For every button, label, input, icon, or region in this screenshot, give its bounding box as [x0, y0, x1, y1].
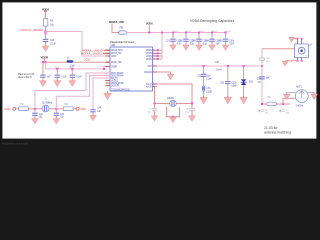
- ground antenna right: [311, 93, 318, 100]
- capacitor C22: [183, 39, 188, 42]
- wire R32 to XOSC_OUT: [73, 108, 76, 110]
- ferrite bead FB1 body: [119, 31, 127, 34]
- black frame top: [0, 0, 320, 2]
- junction X2 left: [154, 103, 156, 105]
- svg-text:1: 1: [106, 84, 107, 86]
- ground below C6: [54, 79, 61, 86]
- svg-text:2: 2: [180, 101, 181, 103]
- junction C22 on bus: [185, 32, 187, 34]
- ground below C23: [196, 44, 203, 51]
- off-page connector circle XOSC_OUT: [76, 107, 79, 110]
- J1 bottom pin stub 1: [297, 58, 299, 61]
- wire J1 bottom to ground: [285, 60, 298, 62]
- pin stub left DIO17_TDI: [106, 52, 111, 54]
- svg-text:1: 1: [106, 65, 107, 67]
- wire InA_P to X2 right: [157, 84, 192, 104]
- wire VDDS pin y=53.3: [157, 52, 162, 54]
- ground below C44: [90, 114, 97, 121]
- svg-text:4: 4: [153, 54, 154, 56]
- wire X2 horizontal: [155, 103, 193, 105]
- wire C41 to ground: [34, 116, 36, 119]
- svg-text:DIO17_TDI: DIO17_TDI: [111, 53, 122, 55]
- ground below C10: [42, 45, 49, 52]
- J1 top pin stub 2: [301, 39, 303, 44]
- capacitor C42: [54, 113, 59, 116]
- ground arrow J1 bottom: [282, 61, 288, 66]
- wire C21 to ground: [172, 42, 174, 45]
- wire leg A to C31: [203, 66, 205, 74]
- wire C6 to ground: [56, 78, 58, 81]
- svg-text:4: 4: [153, 49, 154, 51]
- svg-text:1: 1: [106, 61, 107, 63]
- page background: [0, 0, 320, 146]
- wire to C6: [56, 69, 58, 75]
- junction antenna feed right: [282, 103, 284, 105]
- svg-text:U2B: U2B: [111, 43, 116, 47]
- svg-text:RFGND: RFGND: [144, 72, 152, 74]
- wire VDDR down: [43, 59, 45, 63]
- wire DIO5_RF24N to X1 right: [56, 76, 110, 109]
- junction X2 right: [191, 103, 193, 105]
- svg-text:close to the IC: close to the IC: [18, 76, 32, 79]
- junction J1 bottom 2: [301, 60, 303, 62]
- ground X2: [170, 116, 177, 123]
- svg-text:0.1uF: 0.1uF: [50, 43, 56, 46]
- ground below C25: [222, 44, 229, 51]
- wire bus to C24: [211, 33, 213, 39]
- wire VDDA bus: [127, 32, 226, 34]
- svg-text:2.0nH: 2.0nH: [216, 69, 222, 72]
- junction VDDA on bus: [148, 32, 150, 34]
- wire VDDR split: [43, 61, 46, 63]
- wire C44 to ground: [92, 112, 94, 115]
- junction node RESET: [45, 31, 47, 33]
- svg-text:DCDC: DCDC: [84, 59, 91, 62]
- capacitor C23: [196, 39, 201, 42]
- junction J1 top 1: [297, 38, 299, 40]
- pin stub left DIO5_RF24N: [106, 75, 111, 77]
- wire dnp cap r to ground: [191, 111, 193, 116]
- svg-text:TCXO/WCSP/XOSC: TCXO/WCSP/XOSC: [111, 89, 130, 91]
- wire VDDA to R1: [45, 11, 47, 18]
- svg-text:24MHz: 24MHz: [167, 97, 175, 100]
- junction C23 on bus: [198, 32, 200, 34]
- junction J1 top 2: [301, 38, 303, 40]
- wire C5 to ground: [42, 78, 44, 81]
- black frame bottom: [0, 139, 320, 146]
- ground RFGND: [167, 73, 174, 80]
- inductor L1 body: [67, 60, 74, 62]
- wire antenna left gnd pin: [287, 93, 296, 95]
- dnp capacitor below x=283: [279, 109, 290, 114]
- wire leg B to C33A: [227, 66, 229, 81]
- wire bus to C22: [185, 33, 187, 39]
- wire SWDCLK to pin: [104, 52, 111, 54]
- wire feed up to antenna: [283, 98, 296, 104]
- svg-text:C30B: C30B: [206, 90, 212, 93]
- ground leg B: [224, 96, 231, 104]
- svg-text:DCOUPL: DCOUPL: [111, 85, 121, 87]
- pin stub left DCDC_SW: [106, 61, 111, 63]
- resistor R1 body: [43, 19, 47, 27]
- junction J1 bottom 1: [297, 60, 299, 62]
- wire bus to C25: [225, 33, 227, 39]
- svg-text:4: 4: [153, 64, 154, 66]
- capacitor C44 (VCAP): [90, 109, 95, 112]
- ground arrow J1 top: [289, 37, 295, 42]
- wire RFGND pin to ground: [157, 72, 171, 74]
- pin stub right InA_N: [153, 86, 158, 88]
- junction VDDR right: [45, 61, 47, 63]
- svg-text:VDDR: VDDR: [41, 55, 50, 59]
- ground below C41: [32, 117, 39, 124]
- ground below C24: [209, 44, 216, 51]
- pin stub right VDDS: [153, 55, 158, 57]
- wire dnp cap l to ground: [154, 111, 156, 116]
- wire C22 to ground: [185, 42, 187, 45]
- ground dnp cap r: [189, 114, 196, 121]
- pin stub left nRST: [106, 55, 111, 57]
- pin stub left RX_TX: [106, 77, 111, 79]
- crystal X1 body: [42, 105, 49, 112]
- wire RF feed line: [157, 65, 262, 67]
- wire X2 r to dnp cap: [191, 104, 193, 108]
- svg-text:10uF: 10uF: [229, 42, 235, 45]
- capacitor C31: [201, 74, 206, 77]
- wire VDDS pin y=59: [157, 58, 162, 60]
- inductor L33 body (dnp): [267, 102, 277, 105]
- dnp capacitor below x=262: [258, 109, 269, 114]
- junction cap C6: [56, 68, 58, 70]
- junction RF leg D: [261, 65, 263, 67]
- ground dnp cap l: [151, 114, 158, 121]
- svg-text:1: 1: [165, 101, 166, 103]
- wire X2 l to dnp cap: [154, 104, 156, 108]
- wire C23 to ground: [198, 42, 200, 45]
- junction VDDS y=56: [157, 55, 159, 57]
- junction X1 left: [34, 108, 36, 110]
- capacitor C6: [55, 75, 60, 78]
- pin stub left DIO5_RF24P: [106, 72, 111, 74]
- svg-text:VDDS: VDDS: [146, 50, 152, 52]
- junction cap C7: [71, 68, 73, 70]
- black frame left: [0, 0, 2, 146]
- svg-text:0.1uF: 0.1uF: [61, 75, 67, 78]
- wire VDDS vertical: [161, 33, 163, 60]
- pin stub left DCOUPL: [106, 85, 111, 87]
- pin stub left DIO16_TDO: [106, 49, 111, 51]
- RF connector J1 body: [295, 44, 309, 58]
- svg-text:InA_N: InA_N: [146, 85, 152, 88]
- junction X1 right: [55, 108, 57, 110]
- wire VDDS pin y=56: [157, 55, 162, 57]
- junction C24 on bus: [211, 32, 213, 34]
- svg-text:VDDR: VDDR: [111, 66, 117, 68]
- wire to C41: [34, 109, 36, 113]
- IC U2 body: [110, 47, 153, 91]
- svg-text:Produced by an Autodesk: Produced by an Autodesk: [2, 142, 29, 145]
- junction VDDR left: [42, 61, 44, 63]
- wire J1 top to ground: [292, 38, 298, 40]
- wire MODUL_VDD to bead: [112, 24, 119, 33]
- svg-text:DCDC_SW: DCDC_SW: [111, 62, 123, 64]
- svg-text:nRST: nRST: [111, 56, 117, 58]
- capacitor C33A: [225, 81, 230, 84]
- X2 ground pins routing box: [167, 107, 180, 117]
- crystal X2 body: [170, 100, 177, 107]
- wire to C42: [55, 109, 57, 113]
- ground below C42: [53, 117, 60, 124]
- svg-text:1: 1: [106, 54, 107, 56]
- wire C10 to ground: [45, 42, 47, 46]
- J1 bottom pin stub 2: [301, 58, 303, 61]
- junction VDDR rail corner: [103, 68, 105, 70]
- junction antenna feed left: [261, 103, 263, 105]
- capacitor C25: [223, 39, 228, 42]
- wire RX_TX to VCAP cap: [93, 78, 110, 109]
- wire VDDR cap rail to VDDR pin: [46, 62, 110, 69]
- wire C7 to ground: [71, 78, 73, 81]
- wire RF drop to J1: [262, 48, 295, 50]
- wire C42 to ground: [55, 116, 57, 119]
- junction VDDS y=50.2: [157, 49, 159, 51]
- junction VDDS y=53.3: [157, 52, 159, 54]
- IC ground pin stub: [107, 91, 109, 93]
- svg-text:1: 1: [295, 42, 296, 44]
- svg-text:4: 4: [153, 52, 154, 54]
- svg-text:3: 3: [167, 108, 168, 110]
- wire R31 to X1: [28, 108, 42, 110]
- ground below C5: [39, 79, 46, 86]
- svg-text:0.5pF: 0.5pF: [231, 85, 237, 88]
- svg-text:4: 4: [153, 70, 154, 72]
- ground below C22: [183, 44, 190, 51]
- wire C31 to L32: [203, 77, 205, 86]
- wire RESET to nRST pin: [46, 32, 106, 57]
- ground antenna left: [283, 93, 290, 100]
- wire C33A to ground: [227, 84, 229, 97]
- junction VDDS y=59: [157, 58, 159, 60]
- svg-text:antenna matching: antenna matching: [264, 130, 291, 134]
- wire bus to C21: [172, 33, 174, 39]
- svg-text:VDDS: VDDS: [146, 59, 152, 61]
- inductor L32 body: [202, 86, 204, 91]
- pin stub right RFGND: [153, 71, 158, 73]
- ground below IC: [104, 92, 111, 100]
- pin stub right VDDS: [153, 58, 158, 60]
- svg-text:MODUL_VDD: MODUL_VDD: [109, 20, 124, 24]
- wire DCDC_SW: [46, 61, 110, 63]
- wire R1 to node RESET: [45, 26, 47, 31]
- svg-text:DIO16_TDO: DIO16_TDO: [111, 50, 123, 52]
- dnp component on drop: [260, 58, 264, 60]
- wire XOSC_IN to R31: [16, 108, 19, 110]
- junction node RESET 2: [45, 32, 47, 34]
- black frame right: [316, 0, 320, 146]
- pin stub left VDDS_DCDC: [106, 82, 111, 84]
- svg-text:1.0pF: 1.0pF: [206, 78, 212, 81]
- svg-text:ANT1: ANT1: [296, 85, 303, 88]
- resistor R31 body: [19, 107, 29, 111]
- off-page connector circle XOSC_IN: [13, 107, 16, 110]
- wire VDDR to C5: [42, 62, 44, 74]
- svg-text:XOSC: XOSC: [4, 108, 11, 111]
- capacitor dnp r: [189, 108, 194, 111]
- wire D31 to ground: [243, 85, 245, 97]
- wire connector drop x=262: [261, 49, 263, 104]
- capacitor dnp l: [152, 108, 157, 111]
- capacitor C41: [32, 113, 37, 116]
- svg-text:VDDS: VDDS: [146, 56, 152, 58]
- junction RF leg A: [203, 65, 205, 67]
- wire VDDS pin y=50.2: [157, 49, 162, 51]
- J1 top pin stub 1: [297, 39, 299, 44]
- capacitor C24: [209, 39, 214, 42]
- svg-text:0.1uF: 0.1uF: [76, 75, 82, 78]
- wire X1 to R32: [49, 108, 63, 110]
- wire C25 to ground: [225, 42, 227, 45]
- capacitor C21: [170, 39, 175, 42]
- wire to C7: [71, 69, 73, 75]
- capacitor C7: [70, 75, 75, 78]
- wire leg C to D31: [243, 66, 245, 79]
- svg-text:2: 2: [303, 42, 304, 44]
- svg-text:ANT: ANT: [148, 65, 153, 68]
- resistor R32 body: [63, 107, 73, 111]
- junction VDDS drop: [161, 32, 163, 34]
- svg-text:VDDS: VDDS: [146, 53, 152, 55]
- pin stub left VDDS2: [106, 80, 111, 82]
- svg-text:VDDA: VDDA: [146, 22, 153, 26]
- capacitor C10: [43, 39, 48, 42]
- svg-text:VDDA Decoupling Capacitors: VDDA Decoupling Capacitors: [190, 19, 235, 23]
- ESD diode D31: [241, 79, 247, 85]
- wire SWDIO to pin: [104, 49, 111, 51]
- pin stub left VDDR: [106, 65, 111, 67]
- wire L32 to ground: [203, 91, 205, 97]
- wire VDDA label to bus: [148, 25, 150, 32]
- junction C25 on bus: [225, 32, 227, 34]
- svg-text:4: 4: [177, 108, 178, 110]
- svg-text:MODUL_SWDCLK: MODUL_SWDCLK: [81, 51, 105, 55]
- svg-text:32.768kHz: 32.768kHz: [42, 102, 53, 105]
- pin 6 tick J1: [310, 43, 313, 46]
- svg-text:1: 1: [106, 49, 107, 51]
- junction RF leg B: [227, 65, 229, 67]
- antenna ANT1 body: [295, 90, 308, 103]
- junction RF leg C: [243, 65, 245, 67]
- wire DIO5_RF24P to X1 left: [35, 73, 110, 109]
- svg-text:2.4GHz: 2.4GHz: [296, 105, 304, 108]
- svg-text:4: 4: [153, 57, 154, 59]
- pin stub right VDDS: [153, 52, 158, 54]
- svg-text:DIO6: DIO6: [81, 108, 87, 111]
- ground leg A: [200, 96, 207, 104]
- pin stub right InA_P: [153, 83, 158, 85]
- svg-text:1: 1: [106, 52, 107, 54]
- wire C24 to ground: [211, 42, 213, 45]
- junction X2 ground pins: [172, 116, 174, 118]
- wire antenna right gnd pin: [308, 93, 315, 95]
- junction C21 on bus: [172, 32, 174, 34]
- ground below C7: [69, 79, 76, 86]
- pin stub right VDDS: [153, 49, 158, 51]
- wire node RESET down to C10: [45, 32, 47, 39]
- power bar VDDA: [44, 10, 47, 12]
- wire InA_N to X2 left: [155, 87, 158, 104]
- wire bus to C23: [198, 33, 200, 39]
- svg-text:MODUL_RESET: MODUL_RESET: [21, 28, 44, 32]
- ground below C21: [170, 44, 177, 51]
- pin stub right ANT: [153, 65, 158, 67]
- capacitor C33: [259, 76, 264, 79]
- wire antenna feed: [262, 103, 290, 105]
- capacitor C5: [40, 75, 45, 78]
- ground leg C: [240, 96, 247, 104]
